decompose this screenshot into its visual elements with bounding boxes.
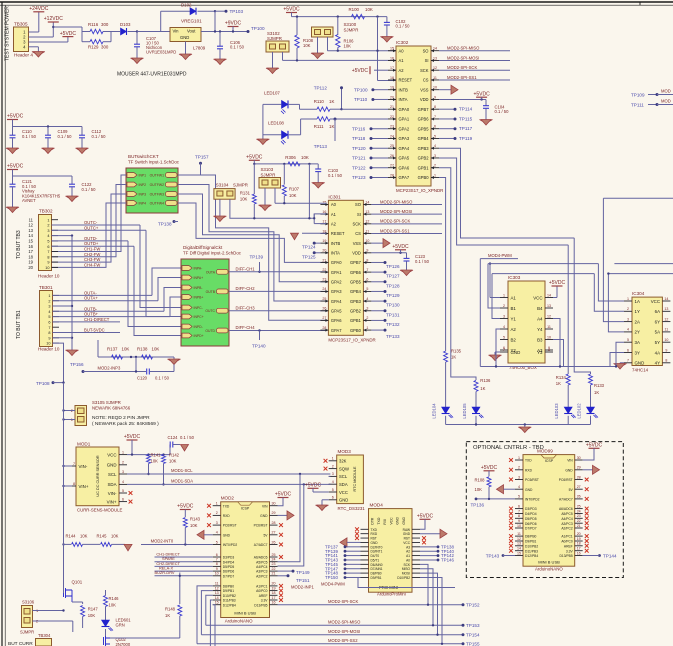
wire INP3 from TB302 [52, 194, 127, 262]
wire D10 bus down [206, 595, 213, 625]
node +12VDC junction [52, 26, 54, 28]
svg-text:3A: 3A [635, 340, 640, 345]
svg-text:TP153: TP153 [466, 623, 480, 628]
wire R136 to LED105 [475, 392, 477, 408]
ground [317, 172, 319, 183]
svg-text:CURR-SENS-MODULE: CURR-SENS-MODULE [77, 508, 122, 513]
svg-text:0.1 / 50: 0.1 / 50 [415, 259, 430, 264]
svg-text:0.1 / 50: 0.1 / 50 [396, 24, 411, 29]
sheet entry INPB+ [182, 295, 192, 300]
svg-text:11: 11 [547, 325, 551, 329]
svg-text:GPB7: GPB7 [418, 107, 430, 112]
wire TP112 tap [341, 88, 343, 109]
svg-text:SDA: SDA [107, 482, 116, 487]
svg-text:4: 4 [518, 485, 520, 489]
svg-text:10K: 10K [301, 155, 309, 160]
svg-text:R131: R131 [240, 191, 251, 196]
testpoint TP130 [371, 300, 385, 302]
svg-text:MOD2-SPI-SS1: MOD2-SPI-SS1 [447, 75, 477, 80]
svg-text:13: 13 [215, 591, 219, 595]
x marks MOD99 right [585, 478, 589, 482]
svg-text:1: 1 [122, 450, 124, 454]
svg-text:9: 9 [47, 261, 49, 265]
node RESET pullup tap [376, 15, 378, 17]
svg-text:VIN-: VIN- [79, 464, 88, 469]
svg-text:+5VDC: +5VDC [7, 164, 24, 170]
wire IC303 outputs right [553, 319, 560, 367]
svg-text:5: 5 [627, 338, 629, 342]
wire VCC rail [127, 454, 170, 456]
svg-text:2Y: 2Y [635, 330, 640, 335]
svg-text:VCC: VCC [651, 299, 660, 304]
sheet entry INPC+ [182, 314, 192, 319]
wire to shared gnd [153, 356, 175, 358]
svg-text:16: 16 [272, 601, 276, 605]
svg-text:D10/PB2: D10/PB2 [525, 544, 538, 548]
svg-text:10K: 10K [111, 534, 119, 539]
net CH1-DIRECT [155, 556, 213, 558]
svg-text:D9/PB1: D9/PB1 [371, 576, 382, 580]
svg-text:TP109: TP109 [631, 93, 645, 98]
svg-text:GND: GND [260, 514, 268, 518]
node C107 tap [136, 30, 138, 32]
svg-text:+5VDC: +5VDC [586, 443, 603, 449]
svg-text:2: 2 [627, 307, 629, 311]
svg-text:GPA6: GPA6 [331, 318, 342, 323]
svg-text:22: 22 [577, 519, 581, 523]
svg-text:GPB4: GPB4 [350, 289, 362, 294]
wire to MOD1 VIN+ [62, 485, 64, 487]
svg-text:0.1 / 50: 0.1 / 50 [22, 134, 37, 139]
svg-text:4: 4 [627, 328, 629, 332]
capacitor C120 [146, 369, 148, 375]
svg-text:7: 7 [434, 115, 436, 119]
svg-text:3.3V: 3.3V [566, 549, 574, 553]
net BUZR-DRV [155, 575, 213, 577]
svg-text:OUTB: OUTB [206, 290, 216, 294]
svg-text:MOD1-SCL: MOD1-SCL [171, 468, 193, 473]
sheet entry INP3 [127, 192, 137, 197]
svg-text:B2: B2 [511, 337, 517, 342]
svg-text:8: 8 [48, 331, 50, 335]
svg-text:Y1: Y1 [511, 316, 517, 321]
svg-text:MOD1-SDA: MOD1-SDA [171, 479, 193, 484]
svg-text:TP112: TP112 [314, 86, 328, 91]
svg-text:6A: 6A [655, 309, 660, 314]
svg-text:INPD+: INPD+ [194, 334, 204, 338]
svg-text:2: 2 [216, 511, 218, 515]
svg-text:5: 5 [518, 495, 520, 499]
svg-text:0.1 / 50: 0.1 / 50 [180, 435, 195, 440]
svg-text:D5/PD5: D5/PD5 [223, 565, 235, 569]
svg-text:10: 10 [215, 572, 219, 576]
svg-text:DIFF-CH1: DIFF-CH1 [236, 266, 256, 271]
svg-text:TP122: TP122 [352, 165, 366, 170]
ground [71, 187, 73, 196]
svg-text:DTR: DTR [371, 517, 375, 525]
svg-text:MOD2-SPI-SS1: MOD2-SPI-SS1 [380, 228, 410, 233]
net OUTB- [53, 310, 165, 312]
svg-text:MOD: MOD [661, 89, 671, 94]
svg-text:6: 6 [434, 125, 436, 129]
svg-text:9: 9 [366, 249, 368, 253]
svg-text:OUTA-: OUTA- [84, 290, 97, 295]
svg-text:1K: 1K [329, 99, 334, 104]
svg-text:D6/PD6: D6/PD6 [525, 522, 537, 526]
svg-text:D4/PD4: D4/PD4 [223, 560, 235, 564]
wire cap rail 2 [12, 170, 14, 177]
svg-text:OUTFW4: OUTFW4 [150, 202, 164, 206]
svg-text:IC301: IC301 [328, 194, 341, 199]
svg-text:TP117: TP117 [459, 126, 473, 131]
svg-text:15: 15 [517, 551, 521, 555]
svg-text:TP118: TP118 [352, 136, 366, 141]
wire bus to IC304 pins [598, 264, 624, 301]
svg-text:PC6/RST: PC6/RST [559, 478, 573, 482]
svg-text:3: 3 [122, 470, 124, 474]
svg-text:TP120: TP120 [352, 146, 366, 151]
svg-text:R144: R144 [66, 534, 77, 539]
svg-text:MOD2-SPI-SCK: MOD2-SPI-SCK [447, 65, 477, 70]
svg-text:R108: R108 [475, 478, 486, 483]
svg-text:23: 23 [272, 562, 276, 566]
svg-text:S3106: S3106 [22, 600, 35, 605]
svg-text:5: 5 [332, 488, 334, 492]
svg-text:GPA4: GPA4 [331, 299, 342, 304]
net MOD2-SPI-MISO [439, 50, 510, 52]
wire MOD2 A3 TP149 [278, 570, 294, 572]
svg-text:8: 8 [216, 562, 218, 566]
wire GPB2 bus [439, 158, 568, 245]
svg-text:OUTD: OUTD [205, 329, 215, 333]
svg-text:TP143: TP143 [486, 553, 500, 558]
svg-text:17: 17 [272, 596, 276, 600]
wire MOD3 SDA [329, 483, 331, 485]
svg-text:A2/PC2: A2/PC2 [256, 574, 268, 578]
x marks MOD2 right group3 [279, 584, 283, 588]
wire D11 bus down [210, 600, 212, 646]
svg-text:OPTIONAL CNTRLR - TBD: OPTIONAL CNTRLR - TBD [473, 445, 544, 451]
sheet entry OUTD [217, 328, 229, 333]
svg-text:12: 12 [517, 537, 521, 541]
wire bus horizontals [461, 237, 575, 239]
svg-text:1K: 1K [451, 355, 456, 360]
svg-text:CH3-FW: CH3-FW [84, 257, 100, 262]
svg-text:INTA: INTA [399, 97, 408, 102]
svg-text:10K: 10K [80, 534, 88, 539]
svg-text:7: 7 [216, 558, 218, 562]
svg-text:D102: D102 [181, 3, 192, 8]
svg-text:13: 13 [28, 228, 33, 233]
net OUTC+ [52, 229, 147, 231]
svg-text:VIN+: VIN+ [107, 499, 117, 504]
svg-text:28: 28 [577, 475, 581, 479]
wire VDD +5V [439, 98, 486, 100]
svg-text:1: 1 [434, 173, 436, 177]
svg-text:AVNET: AVNET [22, 198, 36, 203]
svg-text:25: 25 [577, 504, 581, 508]
svg-text:GPB5: GPB5 [418, 126, 430, 131]
svg-text:Q101: Q101 [72, 580, 83, 585]
ground arrow VSS [439, 89, 451, 91]
net OUTD- [52, 240, 129, 242]
svg-text:21: 21 [272, 572, 276, 576]
ground arrow MOD2 right [278, 514, 288, 516]
svg-text:VCC: VCC [389, 517, 393, 525]
svg-text:D10/PB2: D10/PB2 [223, 594, 236, 598]
svg-text:1: 1 [366, 326, 368, 330]
sheet entry INP1 [127, 173, 137, 178]
svg-text:2: 2 [48, 299, 50, 303]
wire INPD- from OUTD- [128, 241, 181, 327]
svg-text:R134: R134 [556, 375, 567, 380]
net DIFF-CH4 [229, 330, 326, 332]
svg-text:19: 19 [28, 260, 33, 265]
svg-text:10K: 10K [109, 603, 117, 608]
ground [33, 52, 43, 58]
svg-text:27: 27 [577, 485, 581, 489]
sheet entry OUTB [217, 289, 229, 294]
svg-text:SJMPR: SJMPR [344, 28, 359, 33]
svg-text:MOD2-SPI-SCK: MOD2-SPI-SCK [380, 219, 410, 224]
svg-text:0.1 / 50: 0.1 / 50 [328, 173, 343, 178]
svg-text:B3: B3 [537, 337, 543, 342]
wire IC304 3A 3Y feeds [616, 342, 624, 366]
testpoint TP117 [439, 128, 455, 130]
svg-text:SCK: SCK [352, 222, 361, 227]
svg-text:D4/PD4: D4/PD4 [525, 512, 537, 516]
svg-text:GPB7: GPB7 [350, 260, 362, 265]
svg-text:GPA2: GPA2 [331, 279, 342, 284]
svg-text:D12/PB4: D12/PB4 [223, 603, 236, 607]
svg-text:4: 4 [122, 480, 124, 484]
svg-text:7: 7 [48, 326, 50, 330]
capacitor C123 [406, 253, 408, 258]
svg-text:CH4-FW: CH4-FW [84, 262, 100, 267]
wire S3102 right pin to A1 net [282, 52, 284, 60]
svg-text:B4: B4 [537, 306, 543, 311]
svg-text:+5VDC: +5VDC [549, 280, 566, 286]
svg-text:AREF: AREF [564, 544, 573, 548]
svg-text:A0/PC0: A0/PC0 [256, 589, 268, 593]
svg-text:NEWARK 68N4766: NEWARK 68N4766 [92, 406, 131, 411]
svg-text:GND: GND [635, 361, 645, 366]
svg-text:19: 19 [577, 537, 581, 541]
svg-text:TP154: TP154 [466, 633, 480, 638]
svg-text:MOD4-PWM: MOD4-PWM [488, 253, 512, 258]
x marks MOD1 VIN pins [129, 491, 133, 495]
svg-text:+24VDC: +24VDC [29, 6, 48, 12]
svg-text:OUTFW3: OUTFW3 [150, 193, 164, 197]
sheet entry INPC- [182, 305, 192, 310]
ground arrow down [124, 544, 132, 551]
wire MOD4 SCK down [420, 564, 428, 604]
testpoint TP133 [371, 329, 385, 331]
svg-text:INP3: INP3 [139, 193, 147, 197]
svg-text:D11/PB3: D11/PB3 [525, 549, 538, 553]
svg-text:ICSP: ICSP [545, 459, 554, 463]
testpoint TP119 [439, 137, 455, 139]
svg-text:20: 20 [28, 265, 33, 270]
svg-text:5A: 5A [655, 330, 660, 335]
svg-text:SJMPR: SJMPR [233, 183, 248, 188]
svg-text:14: 14 [517, 547, 521, 551]
wire PWM under IC303 [480, 366, 615, 368]
svg-text:A5/PC5: A5/PC5 [561, 512, 573, 516]
svg-text:+12VDC: +12VDC [44, 16, 63, 22]
svg-text:21: 21 [577, 524, 581, 528]
svg-text:BUZR-DRV: BUZR-DRV [155, 570, 175, 575]
net MOD2-SPI-MOSI line [201, 634, 463, 636]
svg-text:D8/PB0: D8/PB0 [223, 585, 235, 589]
svg-text:RESET: RESET [399, 78, 413, 83]
testpoint TP112 [340, 86, 343, 89]
svg-text:6: 6 [47, 245, 49, 249]
wire INP1 from TB302 [52, 175, 127, 252]
wire D12 bus down [213, 605, 215, 646]
svg-text:10: 10 [664, 338, 668, 342]
svg-text:D3/PD3: D3/PD3 [525, 507, 537, 511]
svg-text:MOD2-SPI-SS2: MOD2-SPI-SS2 [328, 638, 358, 643]
svg-text:TP144: TP144 [603, 553, 617, 558]
ground [12, 187, 14, 207]
svg-text:MOD2-SPI-MISO: MOD2-SPI-MISO [328, 620, 361, 625]
svg-text:D13/PB5: D13/PB5 [559, 554, 572, 558]
net OUTA+ [53, 300, 159, 302]
svg-text:20: 20 [272, 582, 276, 586]
wire C120 to gnd [135, 357, 137, 372]
svg-text:1K: 1K [165, 613, 170, 618]
svg-text:D7/PD7: D7/PD7 [223, 574, 235, 578]
svg-text:TP100: TP100 [354, 87, 368, 92]
svg-text:MOD2-SPI-MISO: MOD2-SPI-MISO [447, 46, 480, 51]
svg-text:LED102: LED102 [577, 403, 582, 419]
svg-text:12: 12 [664, 317, 668, 321]
wire Vin bypass up [160, 11, 162, 31]
wire RESET gnd [302, 232, 326, 234]
svg-text:A2: A2 [511, 327, 517, 332]
testpoint TP123 [371, 176, 388, 178]
wire TB301 pin10 down [53, 343, 64, 589]
sheet entry INPA+ [182, 275, 192, 280]
svg-text:TP111: TP111 [631, 103, 644, 108]
svg-text:TP130: TP130 [386, 303, 400, 308]
svg-text:A7/ADC7: A7/ADC7 [559, 498, 573, 502]
svg-text:TB302: TB302 [39, 209, 53, 214]
wire A2 tie [313, 214, 315, 224]
svg-text:GND: GND [107, 463, 117, 468]
wire TB305 pin3 to +5VDC [29, 41, 68, 43]
svg-text:2: 2 [332, 464, 334, 468]
ground arrow MOD4 left [340, 538, 347, 547]
svg-text:GPA3: GPA3 [331, 289, 342, 294]
svg-text:12: 12 [28, 223, 33, 228]
svg-text:14: 14 [28, 233, 33, 238]
svg-text:A0/PC0: A0/PC0 [561, 540, 573, 544]
svg-text:R145: R145 [97, 534, 108, 539]
svg-text:INP1: INP1 [139, 174, 147, 178]
wire R133 to LED102 [590, 385, 592, 407]
svg-text:MOD3: MOD3 [338, 449, 352, 454]
wire LED common cathode [263, 103, 282, 105]
wire S3106 pin2 [33, 620, 73, 622]
svg-text:26: 26 [577, 495, 581, 499]
svg-text:LED105: LED105 [462, 403, 467, 419]
svg-text:GPB0: GPB0 [350, 328, 362, 333]
testpoints MOD4 A pins [420, 546, 438, 548]
svg-text:A1: A1 [511, 295, 517, 300]
net CH2-DIRECT [155, 565, 213, 567]
svg-text:D103: D103 [120, 22, 131, 27]
svg-text:13: 13 [664, 307, 668, 311]
svg-text:+5VDC: +5VDC [177, 504, 194, 510]
svg-text:Y4: Y4 [537, 327, 543, 332]
net DIFF-CH1 [229, 271, 326, 273]
svg-text:GRN: GRN [116, 623, 125, 628]
svg-text:TB301: TB301 [39, 285, 53, 290]
svg-text:TP127: TP127 [386, 274, 400, 279]
svg-text:23: 23 [577, 514, 581, 518]
svg-text:5: 5 [216, 540, 218, 544]
svg-text:OUTA: OUTA [206, 270, 216, 274]
svg-text:R143: R143 [190, 517, 201, 522]
net MOD4-PWM top [480, 258, 518, 260]
svg-text:15: 15 [215, 601, 219, 605]
svg-text:11: 11 [29, 217, 34, 222]
svg-text:1: 1 [503, 293, 505, 297]
svg-text:R129: R129 [88, 44, 99, 49]
svg-text:6: 6 [48, 321, 50, 325]
svg-text:GPB3: GPB3 [350, 299, 362, 304]
svg-text:MOD2: MOD2 [221, 496, 235, 501]
svg-text:Vin: Vin [173, 29, 180, 34]
svg-text:Vout: Vout [187, 29, 196, 34]
svg-text:GPA7: GPA7 [399, 175, 410, 180]
ground [260, 205, 270, 211]
testpoint TP131 [371, 310, 385, 312]
svg-text:DIFF-CH3: DIFF-CH3 [236, 305, 256, 310]
svg-text:ArduinoProMini: ArduinoProMini [377, 591, 406, 596]
testpoint TP132 [371, 319, 385, 321]
svg-text:BUT CURR: BUT CURR [8, 641, 33, 646]
svg-text:D12/PB4: D12/PB4 [525, 554, 538, 558]
svg-text:OUTD-: OUTD- [84, 236, 98, 241]
svg-text:LED107: LED107 [264, 91, 280, 96]
svg-text:GND: GND [223, 533, 231, 537]
svg-text:TP108: TP108 [36, 381, 50, 386]
svg-text:+5VDC: +5VDC [246, 155, 263, 161]
svg-text:8: 8 [73, 482, 75, 486]
net MOD2-SPI-SS2 line [197, 643, 463, 645]
svg-text:OUTA+: OUTA+ [84, 296, 98, 301]
svg-text:4: 4 [366, 297, 368, 301]
svg-text:MINI B USB: MINI B USB [234, 611, 256, 616]
svg-text:GPA1: GPA1 [399, 117, 410, 122]
svg-text:1K: 1K [480, 386, 485, 391]
svg-text:TXO: TXO [377, 517, 381, 524]
wire INPD+ from OUTD+ [134, 246, 181, 335]
testpoint TP100 [247, 30, 250, 33]
net MOD2-SPI-SCK line [278, 604, 464, 606]
wire OUTFW1 to bus L1 [178, 175, 326, 320]
power +5VDC sideways A2 [374, 69, 388, 71]
sheet entry INPB- [182, 285, 192, 290]
svg-text:RESET: RESET [331, 231, 345, 236]
svg-text:MOD1: MOD1 [77, 442, 91, 447]
wire S3104 right pin to A1 [230, 199, 327, 218]
testpoint TP153 [462, 624, 465, 627]
svg-text:VIN: VIN [567, 459, 573, 463]
